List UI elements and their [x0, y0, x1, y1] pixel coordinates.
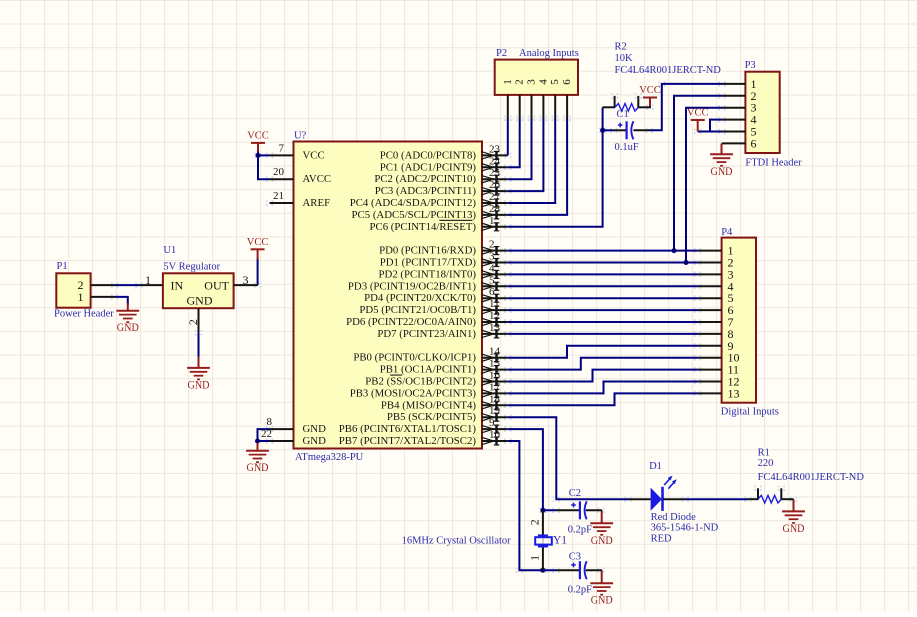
svg-text:R1: R1 [758, 447, 770, 458]
svg-text:VCC: VCC [639, 85, 661, 96]
junction Y1 bottom C3 [540, 568, 545, 573]
svg-text:11: 11 [489, 298, 500, 310]
wire P2 pin 2 to PC1 [508, 118, 520, 167]
svg-text:PB4 (MISO/PCINT4): PB4 (MISO/PCINT4) [381, 399, 476, 411]
svg-text:GND: GND [187, 293, 213, 307]
svg-text:25: 25 [489, 167, 501, 179]
svg-text:16MHz Crystal Oscillator: 16MHz Crystal Oscillator [402, 535, 512, 546]
svg-text:6: 6 [561, 79, 573, 85]
wire PD5 to P4 pin 6 [508, 309, 698, 311]
wire P2 pin 1 to PC0 [507, 118, 509, 155]
ground at C3 [590, 570, 613, 607]
ground at U? pins 8-22 [246, 443, 269, 474]
svg-text:PB1 (OC1A/PCINT1): PB1 (OC1A/PCINT1) [380, 364, 477, 376]
svg-text:VCC: VCC [687, 108, 709, 119]
svg-text:Red Diode: Red Diode [651, 512, 697, 523]
svg-text:PC4 (ADC4/SDA/PCINT12): PC4 (ADC4/SDA/PCINT12) [350, 197, 477, 209]
wire C1 left to RESET node [603, 129, 615, 131]
svg-text:2: 2 [489, 239, 495, 251]
wire VCC to U? pin 7 and pin 20 [258, 151, 270, 179]
svg-text:PB6 (PCINT6/XTAL1/TOSC1): PB6 (PCINT6/XTAL1/TOSC1) [339, 423, 477, 435]
svg-text:PD6 (PCINT22/OC0A/AIN0): PD6 (PCINT22/OC0A/AIN0) [346, 316, 476, 328]
svg-text:220: 220 [758, 458, 774, 469]
wire P2 pin 5 to PC4 [508, 118, 555, 203]
svg-text:14: 14 [489, 346, 501, 358]
svg-text:5V Regulator: 5V Regulator [163, 261, 220, 272]
svg-text:ATmega328-PU: ATmega328-PU [295, 452, 364, 463]
wire PB0 to P4 pin 9 [508, 346, 698, 358]
svg-text:13: 13 [489, 322, 501, 334]
svg-text:3: 3 [489, 251, 495, 263]
power VCC at U1 OUT [247, 237, 269, 260]
svg-text:3: 3 [243, 273, 249, 287]
svg-text:C2: C2 [569, 488, 581, 499]
LED D1 Red Diode [628, 461, 719, 545]
svg-text:D1: D1 [649, 461, 662, 472]
wire PB6 XTAL1 to Y1 and C2 [508, 429, 557, 510]
svg-text:26: 26 [489, 179, 501, 191]
connector P4 Digital Inputs [698, 227, 779, 417]
ground at P3 pin 6 [710, 143, 733, 177]
junction VCC-U? pins [256, 153, 261, 158]
svg-text:PC6 (PCINT14/RESET): PC6 (PCINT14/RESET) [370, 221, 477, 233]
svg-text:P2: P2 [496, 48, 507, 59]
svg-text:0.2pF: 0.2pF [568, 584, 592, 595]
svg-text:365-1546-1-ND: 365-1546-1-ND [651, 523, 719, 534]
svg-text:6: 6 [489, 286, 495, 298]
svg-text:GND: GND [247, 462, 269, 474]
wire PB4 to P4 pin 13 [508, 393, 698, 405]
capacitor C2 0.2pF [556, 488, 602, 535]
wire P3 pin 4 and pin 5 to VCC [698, 120, 723, 132]
wire PD3 to P4 pin 4 [508, 285, 698, 287]
junction RESET node [600, 128, 605, 133]
svg-text:GND: GND [783, 523, 805, 535]
junction GND pins 8-22 [255, 439, 260, 444]
svg-text:8: 8 [267, 416, 273, 428]
svg-text:18: 18 [489, 393, 501, 405]
wire PB2 to P4 pin 11 [508, 370, 698, 382]
svg-text:27: 27 [489, 191, 501, 203]
svg-text:28: 28 [489, 203, 501, 215]
svg-text:17: 17 [489, 381, 501, 393]
svg-text:PC0 (ADC0/PCINT8): PC0 (ADC0/PCINT8) [380, 149, 477, 161]
svg-text:0.1uF: 0.1uF [615, 142, 639, 153]
svg-text:C1: C1 [617, 109, 629, 120]
wire RESET net: U? pin 1 to R2 and C1 [508, 107, 603, 227]
wire U1 GND pin to GND [198, 333, 200, 358]
svg-text:Analog Inputs: Analog Inputs [519, 48, 579, 59]
svg-text:VCC: VCC [303, 149, 325, 161]
svg-text:15: 15 [489, 358, 501, 370]
svg-text:GND: GND [711, 166, 733, 178]
wire P2 pin 4 to PC3 [508, 118, 544, 191]
svg-text:GND: GND [303, 435, 327, 447]
svg-text:16: 16 [489, 370, 501, 382]
connector P2 Analog Inputs [495, 48, 579, 119]
svg-text:PD5 (PCINT21/OC0B/T1): PD5 (PCINT21/OC0B/T1) [359, 304, 476, 316]
svg-text:PB7 (PCINT7/XTAL2/TOSC2): PB7 (PCINT7/XTAL2/TOSC2) [339, 435, 477, 447]
svg-text:P4: P4 [721, 227, 733, 238]
svg-text:5: 5 [489, 274, 495, 286]
svg-text:0.2pF: 0.2pF [568, 524, 592, 535]
svg-text:C3: C3 [569, 551, 581, 562]
svg-text:10: 10 [489, 429, 501, 441]
svg-text:AVCC: AVCC [303, 173, 332, 185]
wire P3 pin 3 to PD1 net [686, 108, 722, 263]
svg-text:Digital Inputs: Digital Inputs [721, 406, 779, 417]
crystal Y1 16MHz [402, 510, 568, 570]
wire PD6 to P4 pin 7 [508, 321, 698, 323]
svg-text:R2: R2 [615, 42, 627, 53]
wire PD1 to P4 pin 2 [508, 262, 698, 264]
svg-text:FC4L64R001JERCT-ND: FC4L64R001JERCT-ND [615, 65, 722, 76]
svg-text:GND: GND [188, 379, 210, 391]
svg-text:2: 2 [186, 319, 200, 325]
svg-text:IN: IN [171, 278, 184, 292]
ground at C2 [590, 510, 613, 547]
svg-text:GND: GND [591, 535, 613, 547]
junction PD1-P3 pin 3 [684, 260, 689, 265]
wire P2 pin 3 to PC2 [508, 118, 532, 179]
svg-text:5: 5 [549, 79, 561, 85]
wire PB5 to D1 [508, 417, 629, 499]
svg-text:21: 21 [273, 190, 284, 202]
svg-text:Y1: Y1 [553, 534, 567, 546]
svg-text:PC2 (ADC2/PCINT10): PC2 (ADC2/PCINT10) [374, 173, 476, 185]
wire PB3 to P4 pin 12 [508, 382, 698, 394]
svg-text:VCC: VCC [247, 131, 269, 142]
wire U? GND pins 8 and 22 to GND [258, 429, 271, 445]
wire P2 pin 6 to PC5 [508, 118, 567, 214]
svg-text:1: 1 [78, 290, 84, 304]
svg-text:Power Header: Power Header [54, 308, 114, 319]
wire PD0 to P4 pin 1 [508, 250, 698, 252]
svg-text:PC3 (ADC3/PCINT11): PC3 (ADC3/PCINT11) [375, 185, 477, 197]
svg-text:FTDI Header: FTDI Header [745, 157, 802, 168]
wire P1 pin 2 to U1 IN [115, 284, 140, 286]
svg-text:RED: RED [651, 534, 672, 545]
svg-text:23: 23 [489, 143, 501, 155]
svg-text:7: 7 [279, 142, 285, 154]
svg-text:3: 3 [526, 79, 538, 85]
wire D1 cathode to R1 [685, 498, 748, 500]
svg-text:OUT: OUT [204, 278, 229, 292]
power VCC at R2 [638, 85, 660, 107]
svg-text:U1: U1 [163, 245, 176, 256]
svg-text:2: 2 [514, 79, 526, 85]
svg-text:13: 13 [728, 386, 740, 400]
MCU U? ATmega328-PU [261, 131, 508, 464]
svg-text:1: 1 [502, 79, 514, 85]
capacitor C1 0.1uF [614, 109, 650, 153]
svg-text:PD0 (PCINT16/RXD): PD0 (PCINT16/RXD) [379, 245, 476, 257]
svg-text:10K: 10K [615, 53, 634, 64]
ground at P1 [116, 303, 139, 334]
svg-text:VCC: VCC [247, 237, 269, 248]
svg-text:U?: U? [294, 131, 307, 142]
svg-text:PB0 (PCINT0/CLKO/ICP1): PB0 (PCINT0/CLKO/ICP1) [353, 352, 476, 364]
ground at U1 [187, 357, 210, 392]
power VCC at P3 pin 4 [687, 108, 709, 132]
svg-text:12: 12 [489, 310, 500, 322]
svg-text:GND: GND [117, 322, 139, 334]
svg-text:PD2 (PCINT18/INT0): PD2 (PCINT18/INT0) [379, 268, 477, 280]
svg-text:AREF: AREF [303, 197, 331, 209]
connector P1 Power Header [54, 261, 115, 319]
regulator U1 5V Regulator [139, 245, 258, 333]
wire C1 to P3 pin 1 [649, 84, 722, 130]
wire U1 OUT to VCC [257, 259, 259, 286]
svg-text:9: 9 [489, 417, 495, 429]
svg-text:FC4L64R001JERCT-ND: FC4L64R001JERCT-ND [758, 472, 865, 483]
junction Y1 top C2 [540, 508, 545, 513]
wire PD4 to P4 pin 5 [508, 297, 698, 299]
wire P3 pin 2 to PD0 net [674, 96, 722, 251]
power VCC at U? pin 7 [247, 131, 269, 152]
svg-text:PB3 (MOSI/OC2A/PCINT3): PB3 (MOSI/OC2A/PCINT3) [350, 387, 477, 399]
wire PD2 to P4 pin 3 [508, 273, 698, 275]
svg-text:P1: P1 [57, 261, 68, 272]
svg-text:4: 4 [489, 262, 495, 274]
connector P3 FTDI Header [722, 60, 802, 169]
wire P1 pin 1 to GND [115, 297, 128, 305]
wire PB7 XTAL2 to Y1 and C3 [508, 441, 557, 570]
svg-text:2: 2 [528, 519, 542, 525]
svg-text:24: 24 [489, 155, 501, 167]
svg-text:PD4 (PCINT20/XCK/T0): PD4 (PCINT20/XCK/T0) [364, 292, 476, 304]
svg-text:1: 1 [145, 273, 151, 287]
ground at R1 [782, 499, 805, 535]
svg-text:P3: P3 [745, 60, 756, 71]
svg-text:PD1 (PCINT17/TXD): PD1 (PCINT17/TXD) [380, 257, 477, 269]
svg-text:1: 1 [528, 555, 542, 561]
svg-text:1: 1 [489, 215, 495, 227]
capacitor C3 0.2pF [556, 551, 602, 595]
svg-text:PB2 (SS/OC1B/PCINT2): PB2 (SS/OC1B/PCINT2) [365, 376, 476, 388]
svg-text:PD7 (PCINT23/AIN1): PD7 (PCINT23/AIN1) [377, 328, 476, 340]
svg-text:PC5 (ADC5/SCL/PCINT13): PC5 (ADC5/SCL/PCINT13) [352, 209, 477, 221]
resistor R2 10K [603, 42, 722, 112]
wire PD7 to P4 pin 8 [508, 333, 698, 335]
resistor R1 220 [748, 447, 864, 503]
svg-text:PD3 (PCINT19/OC2B/INT1): PD3 (PCINT19/OC2B/INT1) [348, 280, 476, 292]
junction PD0-P3 pin 2 [672, 248, 677, 253]
svg-text:GND: GND [303, 423, 327, 435]
wire PB1 to P4 pin 10 [508, 358, 698, 370]
svg-text:4: 4 [537, 79, 549, 85]
svg-text:22: 22 [261, 428, 272, 440]
svg-text:PC1 (ADC1/PCINT9): PC1 (ADC1/PCINT9) [380, 161, 477, 173]
svg-text:20: 20 [273, 166, 285, 178]
svg-text:GND: GND [591, 595, 613, 607]
svg-text:PB5 (SCK/PCINT5): PB5 (SCK/PCINT5) [387, 411, 476, 423]
svg-text:19: 19 [489, 405, 501, 417]
svg-text:6: 6 [751, 136, 757, 150]
